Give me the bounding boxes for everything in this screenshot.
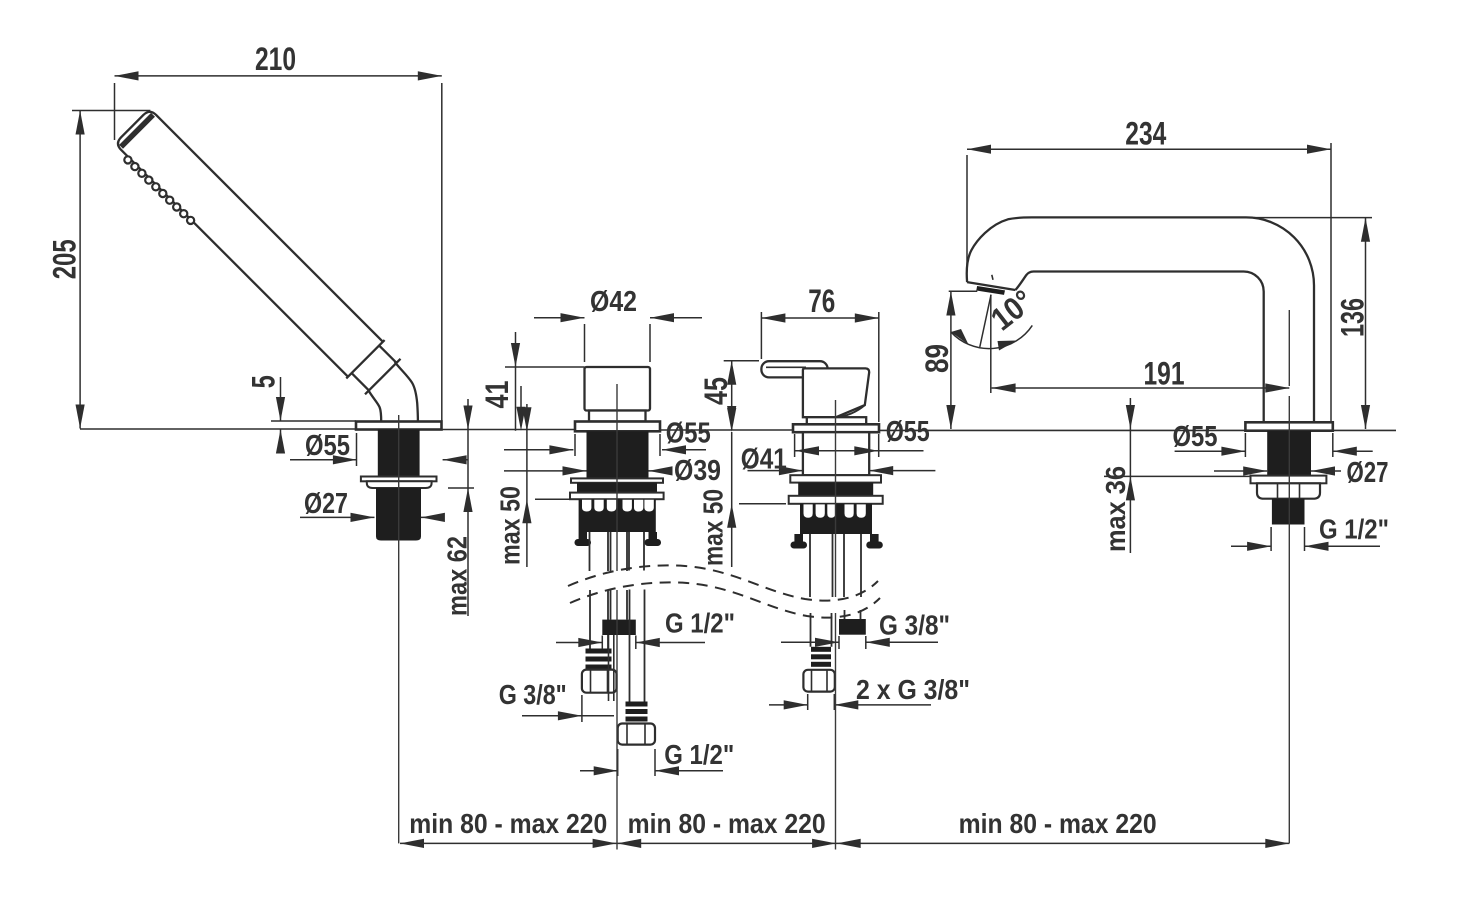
spout dimension D55 xyxy=(1175,450,1246,452)
valve 1 washer 1 xyxy=(571,478,663,482)
svg-text:min 80 - max 220: min 80 - max 220 xyxy=(409,808,607,839)
svg-text:Ø27: Ø27 xyxy=(304,488,348,520)
svg-text:min 80 - max 220: min 80 - max 220 xyxy=(959,808,1157,839)
spout outlet face line xyxy=(967,282,1015,290)
valve 2 hose D walls xyxy=(810,534,833,647)
valve 2 dimension 76 xyxy=(761,317,878,319)
hand shower dimension max 62 xyxy=(467,399,469,616)
svg-text:Ø55: Ø55 xyxy=(305,430,350,462)
spout dimension 136 xyxy=(1365,218,1367,429)
valve 2 dimension D55 xyxy=(795,450,924,452)
svg-text:41: 41 xyxy=(479,381,515,409)
arrows 89 xyxy=(946,292,955,316)
svg-text:76: 76 xyxy=(808,283,835,319)
arrows hand shower D55 xyxy=(333,455,357,464)
center line valve 1 xyxy=(616,384,618,571)
valve 1 dimension G1/2 (shower hose) xyxy=(556,642,602,644)
valve 2 dimension max 50 xyxy=(731,432,733,567)
valve 1 flange xyxy=(575,422,660,432)
valve 2 hose D 2xG3/8 nut xyxy=(803,670,834,692)
svg-text:max 50: max 50 xyxy=(698,489,729,566)
valve 1 washer 2 xyxy=(570,493,664,500)
arrows spout D55 xyxy=(1221,447,1245,456)
svg-text:2 x G 3/8": 2 x G 3/8" xyxy=(856,674,970,705)
arrows valve 1 D55 xyxy=(549,445,573,454)
valve 1 dimension 41 xyxy=(515,332,517,431)
svg-text:45: 45 xyxy=(698,377,734,405)
valve 2 hose E walls xyxy=(844,534,861,619)
arrows valve 2 max 50 xyxy=(727,408,736,432)
center line valve 2 xyxy=(835,400,837,597)
svg-text:Ø55: Ø55 xyxy=(1173,421,1218,453)
hand shower mounting column lower xyxy=(376,488,421,541)
hand shower dimension D55 xyxy=(290,459,357,461)
handset end cap xyxy=(121,115,153,147)
valve 2 mounting bracket with slots xyxy=(800,504,872,534)
valve 2 mixer body xyxy=(803,368,869,417)
valve 2 stud right xyxy=(870,534,879,544)
svg-text:max 50: max 50 xyxy=(495,486,526,565)
pipe break curve lower (dashed) xyxy=(570,582,880,617)
hand shower base flange xyxy=(356,422,442,430)
spout lock nut xyxy=(1257,483,1320,498)
deck line right of spout xyxy=(1333,429,1396,431)
arrows valve 1 G1/2 xyxy=(578,638,602,647)
valve 1 tube C G1/2 nut xyxy=(618,724,655,745)
svg-text:Ø55: Ø55 xyxy=(886,416,930,448)
spout dimension 89 xyxy=(950,292,952,430)
spout threaded tail G1/2 xyxy=(1272,499,1305,525)
valve 2 spacer band xyxy=(798,483,873,496)
svg-text:Ø41: Ø41 xyxy=(741,444,787,476)
arrows valve 1 D39 xyxy=(563,466,587,475)
spout dimension max 36 xyxy=(1129,398,1131,553)
valve 1 dimension max 50 xyxy=(526,404,528,567)
svg-text:min 80 - max 220: min 80 - max 220 xyxy=(628,808,826,839)
arrows 205 xyxy=(76,111,85,135)
svg-text:Ø27: Ø27 xyxy=(1347,457,1389,489)
spout flange xyxy=(1245,422,1332,430)
spout dimension 191 xyxy=(992,387,1290,389)
valve 1 mounting bracket with slots xyxy=(579,499,656,532)
svg-text:89: 89 xyxy=(919,344,955,373)
svg-text:136: 136 xyxy=(1335,298,1371,337)
svg-text:max 62: max 62 xyxy=(442,536,473,616)
bottom dimension line min80-max220 xyxy=(400,842,1289,844)
center line hand shower xyxy=(398,415,400,843)
spout inner contour xyxy=(1015,272,1263,423)
spout dimension 234 xyxy=(967,148,1331,150)
spout outlet tick xyxy=(992,275,993,280)
arrows 234 xyxy=(967,145,991,154)
valve 1 tube B tailpiece xyxy=(609,635,614,701)
handset hose nut section xyxy=(346,340,402,396)
arrows spout G1/2 xyxy=(1247,542,1271,551)
arrows 76 xyxy=(761,313,785,322)
valve 2 dimension G3/8 xyxy=(781,641,839,643)
deck line between valve 1 and valve 2 xyxy=(660,429,793,431)
dimension 210 line xyxy=(115,75,442,77)
valve 1 spacer band xyxy=(577,483,657,493)
spout aerator (black) xyxy=(976,286,1005,295)
valve 1 hose A G3/8 compression ribs xyxy=(586,649,612,670)
spout dimension G1/2 xyxy=(1231,545,1271,547)
arrows 191 xyxy=(992,383,1016,392)
valve 1 threaded column xyxy=(587,431,649,478)
valve 1 dimension D39 xyxy=(504,470,587,472)
svg-text:max 36: max 36 xyxy=(1100,466,1131,552)
arrows 45 xyxy=(727,361,736,385)
valve 1 dimension G1/2 (bottom) xyxy=(580,770,618,772)
spout threaded column xyxy=(1267,431,1311,476)
svg-text:191: 191 xyxy=(1144,356,1185,392)
svg-text:G 3/8": G 3/8" xyxy=(499,679,567,710)
svg-text:G 1/2": G 1/2" xyxy=(664,739,734,770)
deck line between hand shower and valve 1 xyxy=(442,429,576,431)
hand shower mounting column upper (below deck) xyxy=(378,430,420,477)
arrows 210 xyxy=(115,71,139,80)
arrows 41 xyxy=(511,343,520,367)
spout outer contour xyxy=(967,217,1314,422)
hand shower washer xyxy=(361,477,437,482)
valve 2 washer 2 xyxy=(789,496,883,504)
arrows bottom dimension row xyxy=(400,839,424,848)
svg-text:G 3/8": G 3/8" xyxy=(879,610,950,641)
arrows valve 1 G1/2 bottom xyxy=(594,766,618,775)
valve 2 stud left xyxy=(794,534,803,544)
hand shower elbow outlet xyxy=(369,362,418,422)
valve 1 dimension G3/8 xyxy=(522,715,614,717)
svg-text:5: 5 xyxy=(246,375,282,388)
dimension 5 line xyxy=(280,377,282,421)
handset spray nozzles xyxy=(124,156,194,224)
svg-text:Ø55: Ø55 xyxy=(666,417,711,449)
hand shower handset (rotated 45deg) xyxy=(113,107,402,396)
valve 1 tube C walls xyxy=(629,532,645,702)
valve 1 tube B walls xyxy=(611,532,628,620)
arrows valve 2 D55 xyxy=(795,446,819,455)
valve 2 base cylinder xyxy=(807,417,866,424)
arrows spout D27 xyxy=(1243,466,1267,475)
arrows D42 xyxy=(561,313,585,322)
pipe break curve upper (dashed) xyxy=(568,565,878,600)
svg-text:205: 205 xyxy=(47,239,83,279)
arrows 5 xyxy=(276,397,285,421)
arrows valve 2 G3/8 xyxy=(815,638,839,647)
valve 2 flange xyxy=(793,424,879,432)
valve 2 hose E G3/8 nut (black) xyxy=(839,619,866,635)
dimension 205 line xyxy=(79,111,81,429)
valve 2 dimension D41 xyxy=(748,470,803,472)
valve 1 stud right xyxy=(649,532,658,541)
handset body xyxy=(115,109,383,377)
valve 2 dimension 45 xyxy=(731,361,733,430)
valve 1 hose A walls xyxy=(590,532,609,649)
svg-text:210: 210 xyxy=(255,41,296,77)
arrow valve 1 G3/8 xyxy=(558,711,582,720)
arrows 136 xyxy=(1361,218,1370,242)
arrows 10deg arc xyxy=(951,329,969,345)
svg-text:G 1/2": G 1/2" xyxy=(665,608,735,639)
valve 1 knob (diverter) xyxy=(585,367,651,411)
valve 1 dimension D55 xyxy=(504,449,573,451)
spout dimension D27 xyxy=(1214,470,1267,472)
deck mounting surface line, left segment xyxy=(80,428,356,430)
valve 2 washer 1 xyxy=(790,475,881,482)
arrows hand shower D27 xyxy=(351,513,375,522)
spout 10deg angle arc xyxy=(951,325,1032,348)
valve 1 hose A G3/8 nut xyxy=(582,670,617,693)
valve 2 body dome arc xyxy=(836,405,865,417)
arrows valve 2 D41 xyxy=(779,466,803,475)
svg-text:Ø39: Ø39 xyxy=(674,455,721,487)
arrows max 36 xyxy=(1126,405,1135,429)
svg-text:234: 234 xyxy=(1125,116,1166,152)
valve 2 hose D 2xG3/8 compression ribs xyxy=(811,647,831,667)
arrows valve 2 2xG3/8 xyxy=(784,700,808,709)
svg-text:Ø42: Ø42 xyxy=(590,286,637,318)
valve 1 tube B G1/2 nut (black) xyxy=(602,620,636,635)
deck line between valve 2 and spout xyxy=(879,429,1245,431)
valve 2 dimension 2xG3/8 xyxy=(769,704,808,706)
valve 2 body below deck (D41) xyxy=(803,432,869,475)
spout washer xyxy=(1251,476,1327,484)
valve 1 neck xyxy=(589,411,646,422)
valve 1 stud left xyxy=(579,532,587,541)
spout 10deg angle leg xyxy=(980,295,991,347)
hand shower lock nut xyxy=(367,481,432,488)
valve 1 tube C G1/2 compression ribs xyxy=(626,702,648,722)
center line spout xyxy=(1288,310,1290,386)
valve 2 lever handle grip xyxy=(761,361,827,377)
arrows valve 1 max 50 xyxy=(522,407,531,431)
valve 1 dimension D42 xyxy=(534,317,585,319)
svg-text:G 1/2": G 1/2" xyxy=(1319,514,1389,545)
hand shower dimension D27 xyxy=(300,516,375,518)
arrows max 62 xyxy=(463,406,472,430)
